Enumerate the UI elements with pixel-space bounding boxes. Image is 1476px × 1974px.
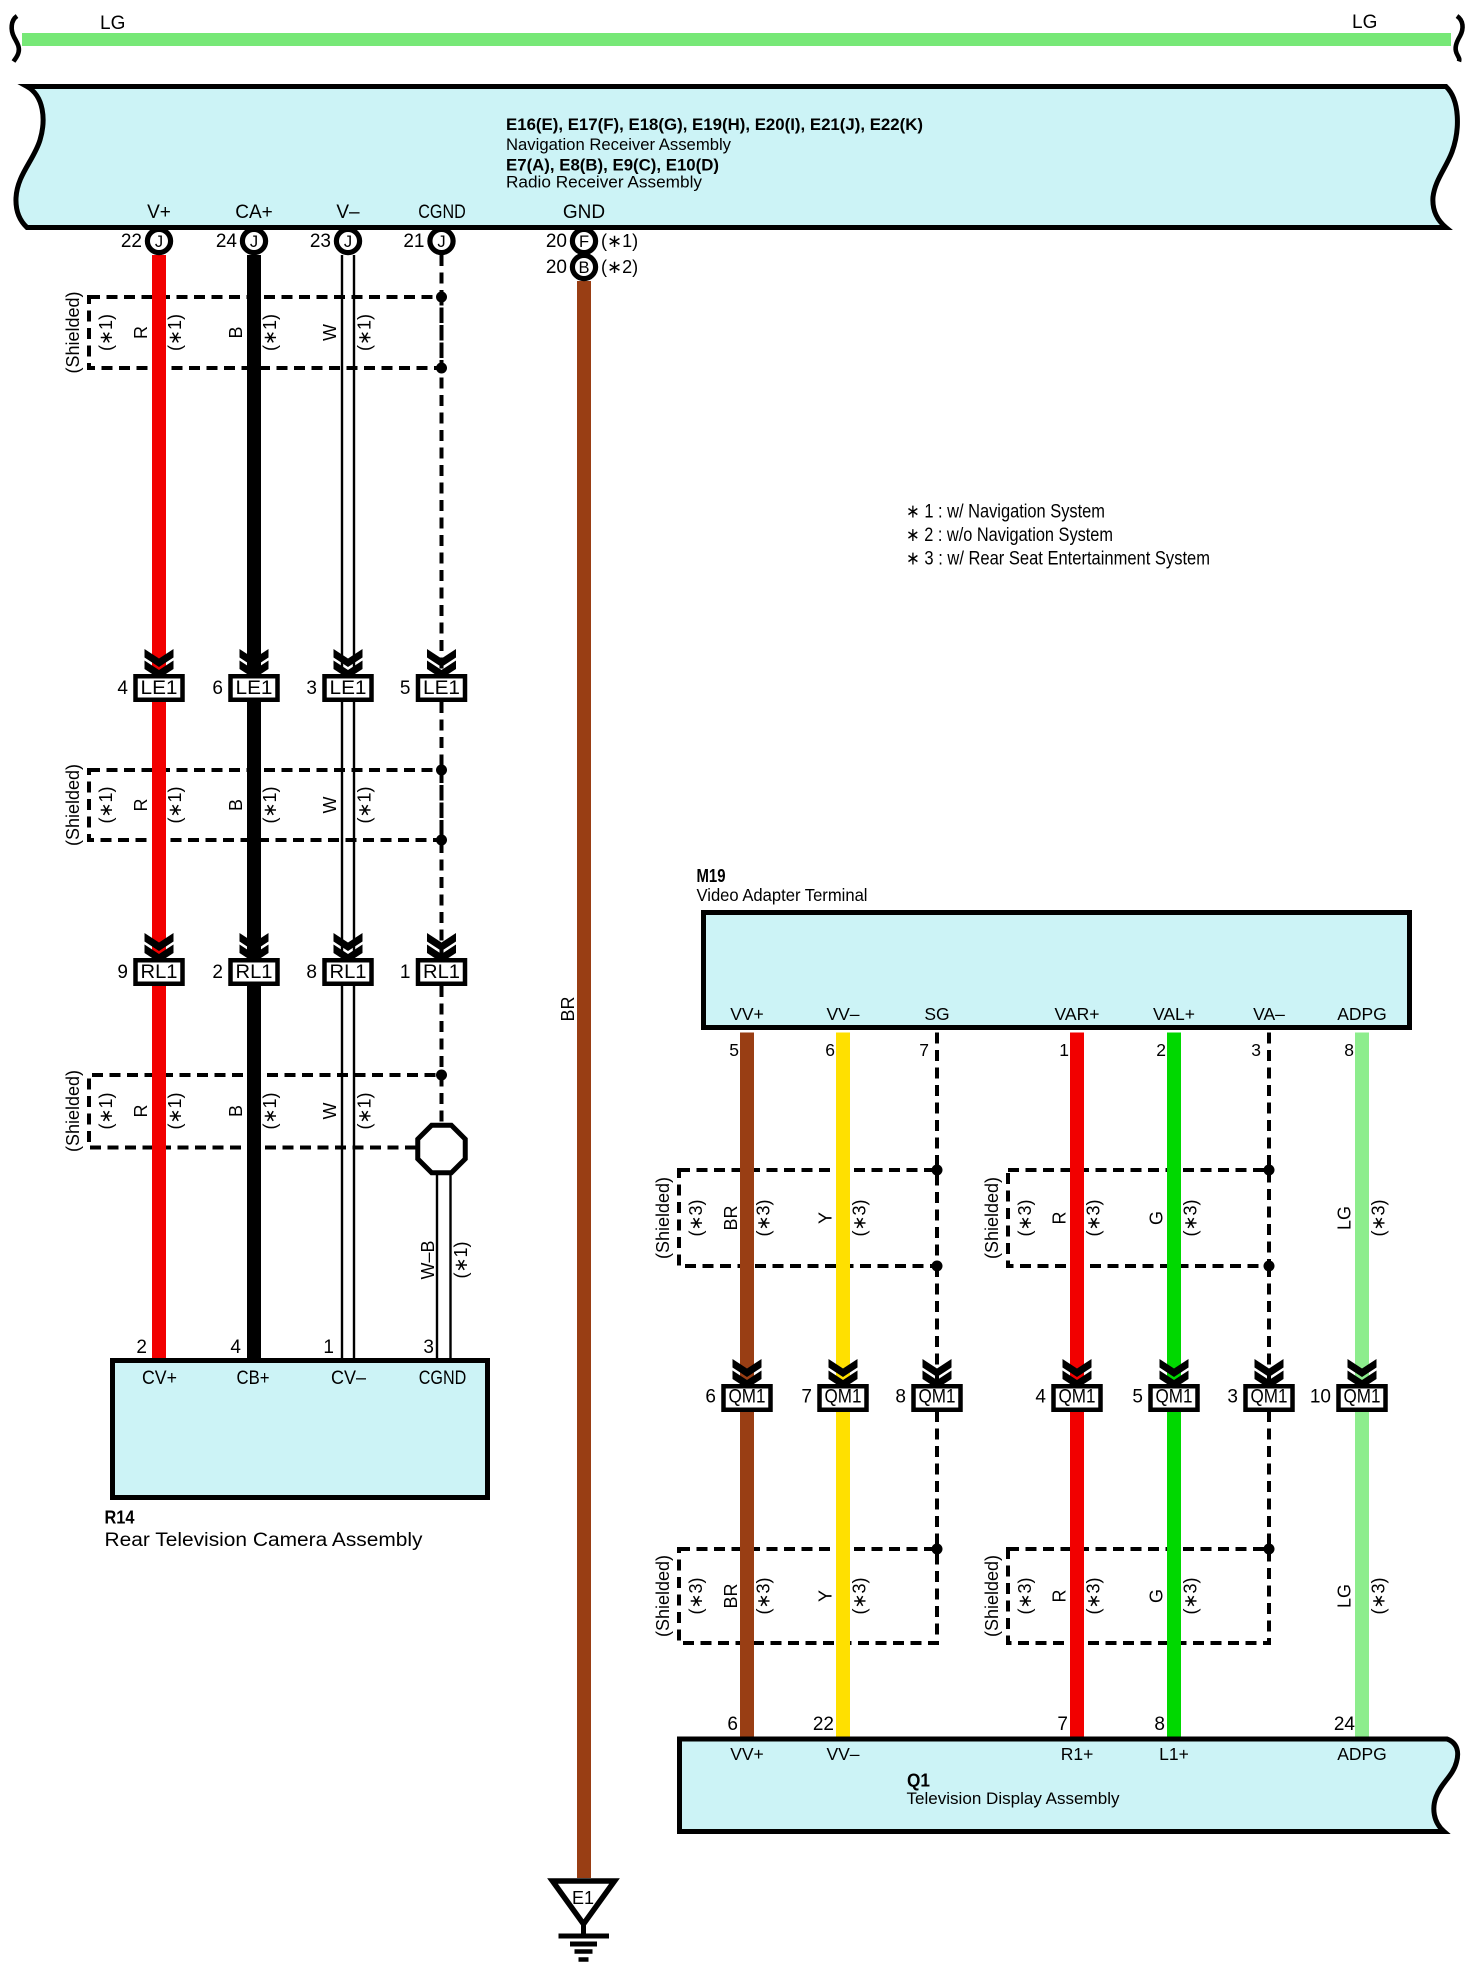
wire VA- dashed — [1267, 1033, 1271, 1550]
wire SG dashed — [935, 1033, 939, 1550]
svg-text:RL1: RL1 — [141, 962, 178, 983]
svg-text:(∗3): (∗3) — [850, 1577, 870, 1614]
node junction dot shield3 top — [436, 1070, 447, 1081]
svg-text:M19: M19 — [697, 865, 726, 886]
svg-text:(∗3): (∗3) — [1015, 1199, 1035, 1236]
svg-text:(∗1): (∗1) — [355, 314, 375, 351]
svg-text:(Shielded): (Shielded) — [63, 764, 83, 846]
wire VV- yellow — [836, 1033, 850, 1381]
svg-text:VAL+: VAL+ — [1153, 1004, 1195, 1024]
svg-text:RL1: RL1 — [423, 962, 460, 983]
svg-text:20: 20 — [546, 231, 567, 252]
component R14 Rear Television Camera Assembly — [113, 1361, 488, 1498]
svg-text:(Shielded): (Shielded) — [982, 1555, 1002, 1637]
svg-text:Navigation Receiver Assembly: Navigation Receiver Assembly — [506, 135, 731, 154]
svg-text:QM1: QM1 — [825, 1387, 862, 1408]
svg-text:VV–: VV– — [826, 1744, 859, 1764]
svg-text:4: 4 — [230, 1337, 241, 1358]
svg-text:LG: LG — [1335, 1206, 1355, 1230]
connector 2 RL1 — [212, 933, 277, 984]
pin 20 circle B — [546, 255, 638, 278]
svg-text:3: 3 — [306, 678, 317, 699]
svg-text:10: 10 — [1310, 1387, 1331, 1408]
svg-text:L1+: L1+ — [1159, 1744, 1189, 1764]
svg-text:4: 4 — [1035, 1387, 1046, 1408]
pin 20 circle F — [546, 229, 638, 252]
wire ADPG light green — [1355, 1033, 1369, 1381]
node junction dot lowerB top — [1264, 1544, 1275, 1555]
svg-text:22: 22 — [121, 231, 142, 252]
svg-text:6: 6 — [212, 678, 223, 699]
component Q1 Television Display Assembly — [680, 1739, 1458, 1832]
svg-text:(∗3): (∗3) — [1181, 1577, 1201, 1614]
svg-text:(∗3): (∗3) — [754, 1577, 774, 1614]
svg-text:8: 8 — [1344, 1040, 1354, 1060]
svg-text:QM1: QM1 — [1059, 1387, 1096, 1408]
svg-text:LE1: LE1 — [141, 678, 178, 699]
svg-text:6: 6 — [705, 1387, 716, 1408]
svg-text:8: 8 — [1154, 1714, 1165, 1735]
svg-text:SG: SG — [924, 1004, 949, 1024]
svg-text:Television Display Assembly: Television Display Assembly — [907, 1789, 1120, 1808]
svg-text:(∗3): (∗3) — [1181, 1199, 1201, 1236]
svg-text:7: 7 — [1057, 1714, 1068, 1735]
connector 3 LE1 — [306, 649, 371, 700]
svg-text:QM1: QM1 — [729, 1387, 766, 1408]
svg-text:R: R — [1050, 1590, 1070, 1603]
svg-text:LE1: LE1 — [330, 678, 367, 699]
connector 8 QM1 — [895, 1359, 960, 1410]
svg-text:BR: BR — [721, 1205, 741, 1230]
wire continuation squiggle left — [12, 16, 19, 62]
connector 6 LE1 — [212, 649, 277, 700]
svg-text:G: G — [1147, 1211, 1167, 1225]
svg-text:∗ 2 : w/o Navigation System: ∗ 2 : w/o Navigation System — [906, 525, 1113, 546]
svg-text:2: 2 — [136, 1337, 147, 1358]
shield box 2 — [89, 770, 442, 840]
wire VAL+ green — [1167, 1033, 1181, 1381]
svg-text:(∗1): (∗1) — [355, 1092, 375, 1129]
svg-text:8: 8 — [306, 962, 317, 983]
svg-text:B: B — [226, 1105, 246, 1117]
svg-text:(∗1): (∗1) — [165, 1092, 185, 1129]
svg-text:ADPG: ADPG — [1337, 1004, 1387, 1024]
svg-text:(∗1): (∗1) — [451, 1241, 471, 1278]
svg-text:(∗3): (∗3) — [1084, 1199, 1104, 1236]
wire VV+ brown — [740, 1033, 754, 1381]
svg-text:5: 5 — [1132, 1387, 1143, 1408]
svg-text:E16(E), E17(F), E18(G), E19(H): E16(E), E17(F), E18(G), E19(H), E20(I), … — [506, 115, 923, 134]
svg-text:B: B — [226, 326, 246, 338]
svg-text:LG: LG — [1352, 12, 1377, 33]
svg-text:CA+: CA+ — [235, 202, 273, 223]
shield box lower B — [1008, 1549, 1269, 1643]
svg-text:VV+: VV+ — [730, 1004, 764, 1024]
svg-text:CV–: CV– — [331, 1367, 366, 1389]
svg-text:R: R — [131, 1105, 151, 1118]
svg-text:(∗3): (∗3) — [1369, 1199, 1389, 1236]
wire V+ red — [152, 255, 166, 670]
shield box lower A — [679, 1549, 937, 1643]
svg-text:(∗1): (∗1) — [96, 786, 116, 823]
svg-text:LG: LG — [1335, 1584, 1355, 1608]
wire VAR+ red — [1070, 1033, 1084, 1381]
svg-text:J: J — [250, 233, 258, 251]
svg-text:W: W — [320, 1103, 340, 1120]
svg-text:W: W — [320, 324, 340, 341]
svg-text:∗ 3 : w/ Rear Seat Entertainme: ∗ 3 : w/ Rear Seat Entertainment System — [906, 549, 1210, 570]
svg-text:R1+: R1+ — [1061, 1744, 1094, 1764]
svg-text:BR: BR — [721, 1583, 741, 1608]
svg-text:V–: V– — [336, 202, 360, 223]
svg-text:Q1: Q1 — [907, 1770, 930, 1791]
svg-text:2: 2 — [1156, 1040, 1166, 1060]
svg-text:1: 1 — [1059, 1040, 1069, 1060]
svg-text:5: 5 — [729, 1040, 739, 1060]
svg-text:(Shielded): (Shielded) — [653, 1555, 673, 1637]
svg-text:Y: Y — [816, 1212, 836, 1224]
node junction dot shield1 top — [436, 292, 447, 303]
svg-text:QM1: QM1 — [919, 1387, 956, 1408]
connector 7 QM1 — [801, 1359, 866, 1410]
svg-text:(∗3): (∗3) — [754, 1199, 774, 1236]
shield box 1 — [89, 297, 442, 368]
svg-text:24: 24 — [1334, 1714, 1356, 1735]
svg-text:1: 1 — [323, 1337, 334, 1358]
connector 5 LE1 — [400, 649, 465, 700]
node junction dot lowerA top — [932, 1544, 943, 1555]
svg-text:V+: V+ — [147, 202, 171, 223]
connector 5 QM1 — [1132, 1359, 1197, 1410]
svg-text:J: J — [155, 233, 163, 251]
component M19 Video Adapter Terminal — [704, 913, 1410, 1028]
svg-text:(Shielded): (Shielded) — [982, 1177, 1002, 1259]
svg-text:CGND: CGND — [419, 1367, 467, 1389]
svg-text:VA–: VA– — [1253, 1004, 1285, 1024]
svg-text:(∗1): (∗1) — [165, 786, 185, 823]
svg-text:7: 7 — [919, 1040, 929, 1060]
node junction dot upperB top — [1264, 1165, 1275, 1176]
shield box upper A — [679, 1170, 937, 1266]
svg-text:1: 1 — [400, 962, 411, 983]
svg-text:W: W — [320, 797, 340, 814]
svg-text:4: 4 — [117, 678, 128, 699]
svg-text:B: B — [226, 799, 246, 811]
svg-text:23: 23 — [310, 231, 331, 252]
svg-text:3: 3 — [423, 1337, 434, 1358]
svg-text:R14: R14 — [105, 1507, 136, 1528]
svg-text:RL1: RL1 — [236, 962, 273, 983]
shield box upper B — [1008, 1170, 1269, 1266]
svg-text:QM1: QM1 — [1251, 1387, 1288, 1408]
pin 22 circle J — [121, 229, 171, 252]
svg-text:R: R — [131, 326, 151, 339]
pin 21 circle J — [403, 229, 453, 252]
svg-text:(∗3): (∗3) — [686, 1577, 706, 1614]
svg-text:W–B: W–B — [418, 1240, 438, 1279]
svg-text:QM1: QM1 — [1156, 1387, 1193, 1408]
octagon noise filter — [418, 1125, 466, 1173]
svg-text:8: 8 — [895, 1387, 906, 1408]
wire W-B double line — [437, 1175, 451, 1358]
svg-text:BR: BR — [558, 996, 578, 1021]
svg-text:(∗1): (∗1) — [96, 314, 116, 351]
svg-text:22: 22 — [813, 1714, 834, 1735]
wire CGND shield drain dashed — [440, 255, 444, 1075]
svg-text:RL1: RL1 — [330, 962, 367, 983]
svg-text:20: 20 — [546, 257, 567, 278]
svg-text:LE1: LE1 — [236, 678, 273, 699]
svg-text:F: F — [579, 233, 589, 251]
wire LG top bus — [22, 33, 1451, 46]
svg-text:6: 6 — [825, 1040, 835, 1060]
svg-text:3: 3 — [1227, 1387, 1238, 1408]
svg-text:(∗3): (∗3) — [1369, 1577, 1389, 1614]
connector block E16/E7 Navigation and Radio Receiver Assembly — [16, 87, 1457, 228]
wire GND brown BR — [577, 281, 591, 1878]
pin 24 circle J — [216, 229, 266, 252]
svg-text:(∗1): (∗1) — [260, 314, 280, 351]
connector 1 RL1 — [400, 933, 465, 984]
svg-text:Rear Television Camera Assembl: Rear Television Camera Assembly — [105, 1530, 424, 1551]
svg-text:5: 5 — [400, 678, 411, 699]
svg-text:21: 21 — [403, 231, 424, 252]
svg-text:B: B — [578, 259, 589, 277]
svg-text:QM1: QM1 — [1344, 1387, 1381, 1408]
wire CA+ black — [247, 255, 261, 670]
svg-text:6: 6 — [727, 1714, 738, 1735]
svg-text:(∗1): (∗1) — [96, 1092, 116, 1129]
svg-text:(Shielded): (Shielded) — [63, 291, 83, 373]
svg-text:9: 9 — [117, 962, 128, 983]
connector 10 QM1 — [1310, 1359, 1386, 1410]
connector 4 LE1 — [117, 649, 182, 700]
connector 4 QM1 — [1035, 1359, 1100, 1410]
svg-text:Radio Receiver Assembly: Radio Receiver Assembly — [506, 173, 702, 192]
connector 9 RL1 — [117, 933, 182, 984]
svg-text:CB+: CB+ — [237, 1367, 270, 1389]
svg-text:CV+: CV+ — [142, 1367, 177, 1389]
svg-text:E1: E1 — [572, 1888, 594, 1908]
wire continuation squiggle right — [1456, 16, 1463, 62]
svg-text:Video Adapter Terminal: Video Adapter Terminal — [697, 885, 868, 905]
svg-text:(∗3): (∗3) — [686, 1199, 706, 1236]
svg-text:(∗3): (∗3) — [1015, 1577, 1035, 1614]
node junction dot upperA bottom — [932, 1261, 943, 1272]
svg-text:LE1: LE1 — [423, 678, 460, 699]
connector 6 QM1 — [705, 1359, 770, 1410]
svg-text:(∗1): (∗1) — [260, 786, 280, 823]
connector 8 RL1 — [306, 933, 371, 984]
connector 3 QM1 — [1227, 1359, 1292, 1410]
svg-text:(∗1): (∗1) — [165, 314, 185, 351]
svg-text:(∗1): (∗1) — [601, 231, 638, 251]
svg-text:24: 24 — [216, 231, 238, 252]
svg-text:3: 3 — [1251, 1040, 1261, 1060]
svg-text:R: R — [131, 799, 151, 812]
shield box 3 — [89, 1075, 442, 1148]
svg-text:GND: GND — [563, 202, 605, 223]
svg-text:2: 2 — [212, 962, 223, 983]
svg-text:J: J — [344, 233, 352, 251]
ground E1 — [553, 1881, 615, 1960]
node junction dot shield2 top — [436, 765, 447, 776]
svg-text:VV–: VV– — [826, 1004, 859, 1024]
svg-text:(∗1): (∗1) — [260, 1092, 280, 1129]
svg-text:VV+: VV+ — [730, 1744, 764, 1764]
svg-text:VAR+: VAR+ — [1055, 1004, 1100, 1024]
node junction dot shield1 bottom — [436, 363, 447, 374]
svg-text:(∗3): (∗3) — [850, 1199, 870, 1236]
svg-text:(∗2): (∗2) — [601, 257, 638, 277]
svg-text:G: G — [1147, 1589, 1167, 1603]
wire V- white double line — [342, 255, 354, 1358]
svg-text:Y: Y — [816, 1590, 836, 1602]
svg-text:(Shielded): (Shielded) — [653, 1177, 673, 1259]
node junction dot upperA top — [932, 1165, 943, 1176]
svg-text:7: 7 — [801, 1387, 812, 1408]
svg-text:(∗3): (∗3) — [1084, 1577, 1104, 1614]
svg-text:J: J — [437, 233, 445, 251]
svg-text:ADPG: ADPG — [1337, 1744, 1387, 1764]
svg-text:(∗1): (∗1) — [355, 786, 375, 823]
svg-text:LG: LG — [100, 13, 125, 34]
svg-text:R: R — [1050, 1212, 1070, 1225]
svg-text:∗ 1 : w/ Navigation System: ∗ 1 : w/ Navigation System — [906, 502, 1105, 523]
pin 23 circle J — [310, 229, 360, 252]
svg-text:CGND: CGND — [418, 202, 466, 223]
svg-text:(Shielded): (Shielded) — [63, 1070, 83, 1152]
node junction dot upperB bottom — [1264, 1261, 1275, 1272]
node junction dot shield2 bottom — [436, 835, 447, 846]
